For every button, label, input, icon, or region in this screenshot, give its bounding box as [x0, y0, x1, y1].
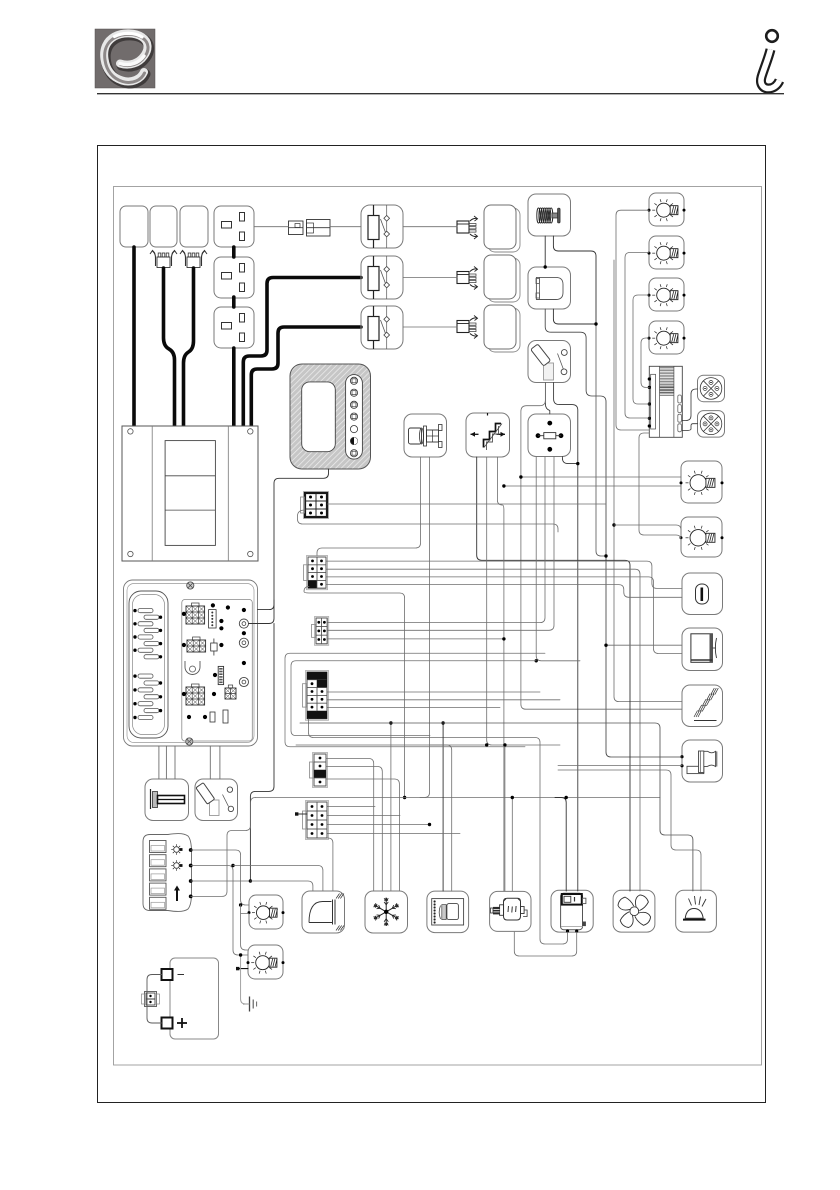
lamp E8	[680, 517, 724, 557]
wire	[545, 309, 682, 757]
junction	[231, 864, 234, 867]
wire	[521, 383, 682, 710]
pump switch S5	[466, 413, 510, 457]
wire	[328, 838, 333, 891]
connector J11	[303, 801, 329, 840]
wire	[304, 587, 405, 798]
wire	[328, 824, 430, 826]
junction	[544, 265, 547, 268]
wire	[326, 767, 382, 892]
junction	[565, 796, 568, 799]
fan M4	[613, 890, 655, 932]
wire	[330, 226, 361, 228]
circuit breaker F3	[195, 779, 238, 821]
junction	[576, 462, 579, 465]
wire	[606, 644, 682, 646]
lamp E7	[680, 461, 724, 503]
logo	[95, 29, 155, 88]
wire	[232, 297, 236, 307]
wire	[296, 744, 487, 746]
TV set A2	[682, 628, 723, 671]
lamp E1	[648, 193, 686, 226]
connector J4	[457, 316, 478, 339]
heater M3	[490, 891, 531, 931]
wire	[403, 277, 457, 279]
relay K3	[361, 306, 403, 349]
wire	[326, 561, 682, 588]
230V socket X3	[214, 307, 254, 348]
junction	[511, 796, 514, 799]
wire	[544, 236, 546, 267]
relay K2	[361, 256, 403, 299]
junction	[503, 743, 506, 746]
12V outlet X4	[682, 573, 723, 615]
junction	[239, 953, 242, 956]
spare box B2	[484, 255, 520, 302]
junction	[612, 523, 615, 526]
wire	[477, 457, 630, 891]
230V socket X2	[214, 257, 254, 298]
wire	[184, 268, 194, 426]
junction	[519, 475, 522, 478]
wire	[328, 691, 541, 693]
wire	[317, 457, 421, 556]
wire	[390, 723, 392, 891]
wire	[241, 913, 249, 915]
wire	[639, 433, 681, 540]
light cluster E5	[698, 375, 725, 402]
wire	[327, 638, 504, 640]
wire	[641, 338, 649, 387]
wire	[536, 457, 580, 661]
awning lamp E14	[676, 890, 717, 932]
wire	[309, 719, 568, 944]
wire	[514, 932, 576, 956]
motor M2	[404, 414, 447, 457]
radio A5	[427, 891, 469, 933]
wire	[237, 968, 249, 970]
speaker LS1	[680, 740, 722, 782]
wire	[285, 653, 545, 747]
light cluster E6	[698, 411, 725, 438]
wire	[254, 226, 289, 228]
junction	[441, 721, 444, 724]
plug P2	[180, 251, 207, 268]
wire	[326, 577, 682, 654]
junction	[485, 743, 488, 746]
wire	[327, 457, 554, 631]
wire	[250, 624, 274, 882]
wire	[558, 765, 682, 767]
lamp E4	[648, 321, 686, 354]
spare box B1	[484, 205, 520, 252]
junction	[428, 823, 431, 826]
wire	[511, 798, 513, 892]
wire	[614, 260, 682, 702]
switch S4	[528, 341, 571, 383]
wire	[596, 324, 606, 556]
wire	[553, 309, 596, 324]
wire	[209, 746, 211, 779]
wire	[328, 806, 376, 808]
outer frame	[98, 146, 766, 1103]
wire	[258, 469, 329, 610]
wire	[487, 457, 560, 745]
switch panel S7	[143, 834, 193, 912]
wire	[326, 585, 682, 598]
wire	[219, 746, 221, 779]
wire	[250, 881, 313, 891]
wire	[191, 880, 251, 882]
control unit A1	[648, 366, 683, 437]
wire	[326, 759, 374, 892]
wire	[191, 798, 256, 897]
junction	[502, 637, 505, 640]
lamp E2	[648, 236, 686, 269]
wire	[562, 457, 577, 464]
wire	[633, 295, 649, 404]
wire	[241, 905, 248, 950]
wire	[300, 723, 693, 891]
wire	[256, 797, 661, 799]
wire	[158, 746, 160, 779]
flasher unit U3	[528, 414, 571, 457]
wire	[243, 278, 361, 427]
connector J8	[312, 617, 329, 646]
connector J2	[457, 216, 478, 239]
wire	[328, 815, 401, 817]
junction	[239, 903, 242, 906]
terminal	[236, 967, 239, 970]
boiler E13	[551, 890, 593, 932]
wire	[191, 850, 249, 905]
connector J7	[304, 556, 328, 590]
info icon	[761, 30, 780, 88]
wire	[497, 457, 504, 891]
wire	[297, 813, 308, 815]
wire	[625, 253, 649, 419]
wire	[682, 389, 697, 421]
junction	[389, 721, 392, 724]
wire	[430, 745, 452, 891]
ground	[243, 997, 257, 1012]
wire	[328, 707, 501, 709]
charger U2	[528, 267, 571, 309]
wire	[249, 600, 275, 624]
junction	[403, 796, 406, 799]
wire	[504, 485, 681, 487]
lamp E3	[648, 278, 686, 311]
icon box S3	[180, 206, 208, 247]
wire	[616, 210, 649, 430]
wire	[232, 247, 236, 257]
wire	[614, 525, 681, 530]
inline connector W1	[289, 220, 331, 237]
battery master switch S6	[145, 779, 189, 821]
icon box S2	[150, 206, 177, 247]
connector J6	[301, 492, 329, 519]
fridge E12	[365, 891, 408, 933]
header rule	[97, 93, 784, 95]
wire	[326, 779, 399, 891]
junction	[249, 879, 252, 882]
wire	[545, 383, 549, 415]
awning light E11	[302, 891, 345, 933]
wire	[165, 746, 167, 779]
wire	[147, 975, 162, 1024]
wire	[251, 327, 361, 426]
entry step A3	[682, 685, 723, 727]
lamp E10	[247, 945, 285, 979]
plug P1	[150, 251, 177, 268]
wire	[328, 503, 607, 505]
terminal	[295, 812, 298, 815]
junction	[502, 484, 505, 487]
wire	[504, 745, 506, 891]
wire	[241, 955, 249, 1004]
wire	[191, 866, 248, 956]
wire	[682, 424, 697, 431]
wire	[553, 236, 596, 324]
wire	[554, 383, 578, 892]
spare box B3	[484, 305, 520, 352]
fuse board F2	[124, 580, 258, 746]
230V socket X1	[214, 206, 254, 247]
wire	[326, 569, 640, 891]
wire	[403, 326, 457, 328]
wire	[233, 866, 323, 892]
wire	[328, 833, 461, 835]
junction	[604, 644, 607, 647]
wire	[403, 226, 457, 228]
connector J3	[457, 267, 478, 290]
consumer unit F1	[122, 426, 258, 561]
water pump M1	[528, 194, 571, 236]
wire	[232, 348, 236, 426]
control panel A4	[290, 364, 371, 469]
relay K1	[361, 205, 403, 248]
wire	[174, 746, 176, 779]
connector J5	[142, 992, 160, 1007]
junction	[535, 659, 538, 662]
wire	[291, 661, 536, 736]
inner frame	[114, 187, 762, 1066]
junction	[594, 322, 597, 325]
wire	[328, 699, 561, 701]
connector J10	[310, 753, 328, 788]
wire	[132, 247, 136, 426]
wire	[555, 798, 566, 892]
battery G1	[162, 958, 219, 1039]
lamp E9	[248, 895, 285, 929]
wire	[420, 457, 430, 798]
wire	[298, 510, 559, 532]
wire	[164, 268, 175, 426]
icon box S1	[120, 206, 148, 247]
wire	[558, 770, 701, 891]
wire	[327, 457, 545, 623]
wire	[442, 723, 444, 891]
junction	[604, 554, 607, 557]
wire	[521, 476, 681, 478]
connector J9	[303, 671, 329, 721]
